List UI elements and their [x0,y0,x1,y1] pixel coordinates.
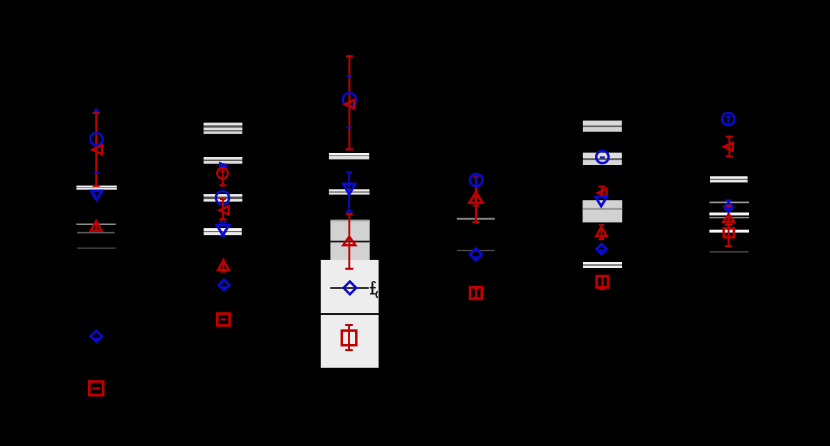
col5 white band (double line) [583,262,622,268]
col6 white line B [709,213,749,216]
col2 blue right triangle [220,163,228,170]
col2 red open square [217,314,229,326]
col2 blue open diamond [219,280,230,291]
col2 blue apex cap [220,235,225,237]
col2 blue error cap [219,221,226,223]
col6 red open square [724,228,734,237]
col4 blue error bar (circle) [475,174,477,186]
col5 band A (double thick) [583,121,622,132]
col2 red error bar (left-tri series) [222,199,224,219]
col6 red cap over diamond [726,205,732,207]
col6 blue open circle [722,113,734,125]
col6 gray line C [709,217,749,218]
col4 faint gray line [457,250,495,251]
col2 red left triangle [220,206,229,214]
col4 gray line [457,218,495,220]
col1 gray line B [77,232,115,234]
col1 blue open diamond [91,331,102,342]
col3 white band A [329,153,369,155]
col2 red open circle [217,168,228,179]
col2 band B (double line) [204,157,243,164]
col4 blue diamond inner cap [474,256,479,258]
col5 red up triangle [596,227,607,236]
col1 red square inner dash [93,387,101,389]
col4 blue open circle [470,174,482,186]
col3 red error bar (top series) [348,56,350,149]
col3 legend sample line [330,287,369,289]
col2 band A (triple line) [204,123,243,134]
col2 band C (double line) [204,194,243,202]
col6 white band top (double line) [710,176,748,182]
col5 red open square [597,276,608,287]
col2 blue diamond inner cap [222,286,227,288]
col1 gray line C [77,247,116,249]
col5 band B (double thick) [583,153,622,165]
col1 blue diamond inner cap [94,338,99,340]
col6 blue error cap [726,199,732,201]
col5 blue diamond inner cap [599,250,603,252]
col3 blue error bar (down triangle) [348,172,350,211]
col2 red error bar (circle series) [222,164,224,185]
col5 blue down triangle [596,197,607,206]
col4 red error bar (up triangle) [475,177,477,222]
col1 red error bar (up triangle) [95,220,97,232]
col6 gray line A [710,202,750,204]
col1 red left triangle [92,145,102,154]
col5 red error bar (up triangle) [601,225,603,239]
col6 blue filled diamond [723,202,733,213]
col2 band D (double line thick) [204,228,242,235]
col3 blue open diamond (legend/data) [344,282,357,295]
col4 red up triangle [470,192,483,203]
col3 white band B (double line) [329,189,370,194]
col3 blue down triangle [343,184,355,195]
col4 red square inner error bar [475,288,477,297]
col5 red left triangle [598,189,607,197]
col6 red long error bar [728,206,730,246]
col3 blue open circle [343,93,356,106]
col6 red up triangle [723,214,734,222]
col3 blue error caps (circle series) [347,75,352,77]
col3 light legend box upper [321,260,379,313]
col6 white line D [709,230,749,233]
col1 blue error cap [94,172,100,174]
col4 red open square [470,287,482,299]
col6 blue circle error bar [727,117,729,124]
col3 legend divider black line [321,313,379,315]
col2 blue down triangle [217,225,229,235]
col3 red up triangle [343,237,355,246]
col1 red open square [89,382,103,396]
col5 gray box [583,200,623,222]
col5 blue open circle [596,151,608,163]
col2 red up triangle [218,260,229,270]
col5 red error bar (square) [601,277,603,289]
col1 blue top marker (small square) [94,109,98,112]
col6 red left triangle [724,143,733,151]
col6 red error bar (left tri) [728,137,730,157]
col1 blue open circle [90,133,102,145]
col2 red error bar (up triangle) [222,258,224,271]
col5 blue diamond (thick) [597,244,607,254]
col3 legend text f0 (drawn as path to avoid subpixel AA) [370,281,378,298]
col3 red left triangle [345,100,354,109]
col6 faint gray line E [710,251,749,253]
col1 red up triangle [91,221,102,231]
col3 red error bar (square) [348,325,350,350]
col1 white average band (double line) [76,186,116,190]
col3 red error bar (up triangle) [348,214,350,269]
col5 red error bar (left tri) [601,187,603,197]
col3 gray box with black center line [330,220,369,262]
col4 blue open diamond [470,249,482,261]
col2 blue open circle [216,191,229,204]
col3 red open square [342,331,357,346]
col2 red square inner dash [221,318,227,320]
col3 light legend box lower [321,315,379,368]
col1 blue down triangle [91,191,102,200]
col5 blue circle inner cap [600,156,605,158]
col1 red error bar (top series) [95,113,97,186]
col1 gray line A [76,224,115,226]
